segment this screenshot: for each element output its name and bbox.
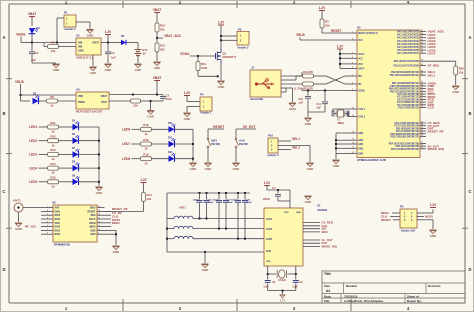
svg-text:Q1: Q1 xyxy=(223,52,227,56)
ground for C1 xyxy=(52,64,60,72)
power port 1.2V at U2 out xyxy=(105,30,112,43)
svg-text:42: 42 xyxy=(421,73,423,76)
wire P4 pin2 to gnd xyxy=(187,107,200,113)
svg-text:12: 12 xyxy=(98,221,100,223)
svg-text:PC6 (TOSC1/PCINT22): PC6 (TOSC1/PCINT22) xyxy=(394,123,419,125)
svg-text:GND: GND xyxy=(90,71,98,75)
power port VBAT xyxy=(28,12,36,26)
svg-text:PA1 (ADC1/PCINT1): PA1 (ADC1/PCINT1) xyxy=(397,34,419,37)
svg-text:VOUT: VOUT xyxy=(92,42,99,45)
svg-text:15: 15 xyxy=(352,147,354,149)
diode D4 xyxy=(108,34,138,45)
svg-text:D10: D10 xyxy=(168,122,173,125)
svg-text:C4: C4 xyxy=(272,186,276,190)
svg-text:Drawn By:: Drawn By: xyxy=(407,299,422,303)
ground for MCU xyxy=(332,160,340,168)
svg-text:1k: 1k xyxy=(51,130,55,134)
svg-text:RESET: RESET xyxy=(381,218,391,222)
svg-text:NSS: NSS xyxy=(91,214,96,217)
wire P1 pin1 xyxy=(57,18,64,43)
svg-text:R2: R2 xyxy=(51,40,55,44)
net labels AS3933 spi xyxy=(303,221,338,249)
svg-text:33: 33 xyxy=(421,36,423,38)
svg-text:8: 8 xyxy=(352,83,353,85)
svg-text:SF_IRQ: SF_IRQ xyxy=(428,64,440,68)
svg-text:P3: P3 xyxy=(400,205,404,209)
svg-text:100pF: 100pF xyxy=(193,199,200,201)
svg-text:22k: 22k xyxy=(459,71,464,75)
svg-text:DIO4: DIO4 xyxy=(55,218,61,221)
svg-text:U1: U1 xyxy=(317,203,321,207)
svg-text:VIN: VIN xyxy=(78,46,82,49)
svg-text:GND: GND xyxy=(296,212,301,214)
svg-text:12pF: 12pF xyxy=(263,286,269,289)
ground for SW1 xyxy=(204,163,212,171)
node VDDA junction xyxy=(197,55,199,57)
svg-text:10k: 10k xyxy=(325,24,330,28)
net labels RF module xyxy=(112,207,128,225)
svg-text:R6: R6 xyxy=(50,95,54,99)
svg-text:1k: 1k xyxy=(51,143,55,147)
svg-text:7: 7 xyxy=(352,75,353,77)
node R7 junction xyxy=(150,100,152,110)
svg-text:SEL2: SEL2 xyxy=(428,73,436,77)
svg-text:GND: GND xyxy=(105,68,113,72)
svg-text:DIO3: DIO3 xyxy=(55,214,61,217)
svg-text:GND: GND xyxy=(358,154,363,156)
svg-text:Y1: Y1 xyxy=(337,118,341,122)
svg-text:R21: R21 xyxy=(50,121,56,125)
svg-text:36: 36 xyxy=(421,101,423,103)
wire usb d+ to R5 xyxy=(281,83,303,85)
svg-text:RF_SIG: RF_SIG xyxy=(25,225,37,229)
ground for ANT1 xyxy=(15,212,23,231)
svg-text:4: 4 xyxy=(352,56,353,59)
svg-text:7/02/2019: 7/02/2019 xyxy=(344,294,358,298)
ground for P1 xyxy=(86,30,94,38)
net label ANT1 lf xyxy=(179,206,186,210)
svg-text:jumper 3: jumper 3 xyxy=(267,153,279,157)
power port 1.2V for R14 xyxy=(140,178,147,193)
svg-text:MISO: MISO xyxy=(112,221,120,225)
net label RESET mcu xyxy=(331,29,342,33)
svg-text:A: A xyxy=(2,35,5,40)
svg-text:33: 33 xyxy=(421,93,423,95)
svg-text:ANT: ANT xyxy=(55,207,60,210)
svg-text:VDD: VDD xyxy=(284,212,289,214)
svg-text:37: 37 xyxy=(421,49,423,51)
ground for charger xyxy=(147,111,155,119)
node charger junction xyxy=(20,94,77,96)
svg-text:VDDA: VDDA xyxy=(180,52,190,56)
wire VBUS rail xyxy=(32,42,76,44)
charger U4 MCP73832T xyxy=(76,88,109,114)
wire LC top rail xyxy=(167,193,250,252)
svg-text:Date:: Date: xyxy=(324,294,332,298)
resistor R7 xyxy=(109,99,151,108)
svg-text:VBAT: VBAT xyxy=(153,76,161,80)
wire SEL2 xyxy=(278,146,300,150)
ground for P4 xyxy=(183,113,191,121)
LED D2 xyxy=(21,92,47,105)
ground for C2 xyxy=(104,64,112,72)
power port 1.2V for R3 xyxy=(319,6,326,19)
resistor R14 xyxy=(105,193,153,212)
svg-text:VBUS: VBUS xyxy=(15,80,24,84)
node rail-P1 junction xyxy=(56,42,58,44)
switch SW1 reset xyxy=(207,138,220,162)
svg-text:DIO1: DIO1 xyxy=(55,229,61,232)
svg-text:39: 39 xyxy=(421,122,423,124)
svg-text:PB6 (OC3A/MISO/PCINT14): PB6 (OC3A/MISO/PCINT14) xyxy=(389,88,419,91)
wire usb gnd xyxy=(281,88,292,102)
svg-text:R25: R25 xyxy=(50,176,56,180)
svg-text:GND: GND xyxy=(90,233,96,236)
svg-text:GND: GND xyxy=(333,164,341,168)
svg-text:16: 16 xyxy=(352,152,354,154)
regulator U2 AMS1117-3.3 xyxy=(76,34,101,60)
svg-text:100pF: 100pF xyxy=(227,202,234,204)
svg-text:13: 13 xyxy=(98,218,100,220)
svg-text:BT1: BT1 xyxy=(143,48,149,52)
net label VBAT_ADC xyxy=(157,34,182,38)
net label VBUS charger xyxy=(15,80,24,95)
net labels P3 left xyxy=(381,211,391,222)
svg-text:Sheet of: Sheet of xyxy=(407,294,419,298)
svg-text:VCC: VCC xyxy=(358,40,363,42)
ground for BT1 xyxy=(134,64,142,72)
RF module U6 RFM69HCW xyxy=(41,201,105,247)
svg-text:GND: GND xyxy=(147,115,155,119)
microcontroller U5 ATMEGA1284P xyxy=(351,26,445,162)
LED row LED2 with resistor R22 and LED D6 xyxy=(29,133,99,147)
svg-text:41: 41 xyxy=(421,126,423,129)
node VBUS junction xyxy=(31,42,33,44)
svg-text:6: 6 xyxy=(47,225,48,227)
resistor R3 xyxy=(320,19,351,33)
wire LED column 1 common xyxy=(98,127,100,186)
resistor R4 xyxy=(303,70,327,78)
svg-text:32: 32 xyxy=(421,33,423,35)
svg-text:1uF: 1uF xyxy=(111,56,116,60)
svg-text:STAT: STAT xyxy=(101,101,107,104)
svg-text:100pF: 100pF xyxy=(246,202,253,204)
capacitor C8 xyxy=(263,274,276,291)
svg-text:WAKE_IRQ: WAKE_IRQ xyxy=(428,147,445,151)
svg-text:1uF: 1uF xyxy=(316,106,321,110)
svg-text:MCP73832T-2ACI/OT: MCP73832T-2ACI/OT xyxy=(76,110,103,114)
wire Q1 source down xyxy=(220,64,222,80)
svg-text:P4: P4 xyxy=(200,93,204,97)
wire RF gnd rows xyxy=(105,230,118,245)
svg-text:J1: J1 xyxy=(251,65,255,69)
svg-text:GND: GND xyxy=(113,250,121,254)
svg-text:PB2 (INT2/AIN0/PCINT10): PB2 (INT2/AIN0/PCINT10) xyxy=(391,71,419,74)
svg-text:RESET: RESET xyxy=(88,210,97,213)
svg-text:GND: GND xyxy=(202,268,210,272)
svg-text:32: 32 xyxy=(421,145,423,147)
wire P2 pin2 xyxy=(220,39,237,41)
wire ugnd row xyxy=(281,88,351,91)
svg-text:MISO: MISO xyxy=(89,226,95,229)
resistor R10 xyxy=(155,23,166,38)
svg-text:D4: D4 xyxy=(121,34,125,38)
svg-text:R4 22R: R4 22R xyxy=(303,70,312,74)
LED row LED4 with resistor R24 and LED D8 xyxy=(29,161,99,175)
svg-text:PA2 (ADC2/PCINT2): PA2 (ADC2/PCINT2) xyxy=(397,37,419,40)
svg-text:100pF: 100pF xyxy=(208,202,215,204)
svg-text:P1: P1 xyxy=(64,11,68,15)
svg-text:35: 35 xyxy=(421,42,423,44)
svg-text:15: 15 xyxy=(98,210,100,212)
svg-text:7: 7 xyxy=(47,229,48,231)
svg-text:microUSB: microUSB xyxy=(250,97,263,101)
svg-text:PC1 (SDA/PCINT17): PC1 (SDA/PCINT17) xyxy=(397,96,419,99)
wire P3 mosi xyxy=(417,215,433,219)
header P4 xyxy=(200,93,212,115)
svg-text:PD6 (OC2B/ICP/PCINT30): PD6 (OC2B/ICP/PCINT30) xyxy=(391,149,419,151)
ground LED column 2 xyxy=(189,163,197,171)
svg-text:WAKE_IRQ: WAKE_IRQ xyxy=(322,244,338,248)
wire xtal bottom rail xyxy=(268,290,296,295)
svg-text:VCC: VCC xyxy=(358,58,363,60)
svg-text:PB1 (CLKO/T1/PCINT9): PB1 (CLKO/T1/PCINT9) xyxy=(393,66,419,68)
resistor R20 on SF_IRQ xyxy=(426,61,464,85)
svg-text:1.2V: 1.2V xyxy=(140,178,147,182)
svg-text:GND: GND xyxy=(305,200,313,204)
svg-text:GND: GND xyxy=(154,66,162,70)
resistor R5 xyxy=(303,82,327,91)
svg-text:2: 2 xyxy=(47,210,48,212)
svg-text:Title: Title xyxy=(324,272,331,276)
svg-text:11: 11 xyxy=(98,225,100,227)
svg-text:1k: 1k xyxy=(50,104,54,108)
svg-text:LED8: LED8 xyxy=(122,157,130,161)
svg-text:5V_EXT: 5V_EXT xyxy=(243,125,257,129)
LF receiver U1 AS3933 xyxy=(264,203,328,266)
svg-text:D11: D11 xyxy=(168,137,173,140)
svg-text:8: 8 xyxy=(47,233,48,235)
power port VBAT divider xyxy=(153,8,161,23)
svg-text:PC3 (TMS/PCINT19): PC3 (TMS/PCINT19) xyxy=(397,102,419,104)
svg-text:10: 10 xyxy=(352,108,354,110)
svg-text:GND: GND xyxy=(90,229,96,232)
svg-text:AUX: AUX xyxy=(239,139,245,143)
svg-text:GND: GND xyxy=(289,107,297,111)
LED row LED1 with resistor R21 and LED D5 xyxy=(29,120,99,134)
svg-text:43: 43 xyxy=(421,81,423,84)
svg-text:3: 3 xyxy=(352,52,353,54)
ground for P10 xyxy=(306,163,314,171)
svg-text:34: 34 xyxy=(421,94,423,97)
svg-text:16: 16 xyxy=(98,206,100,208)
power port 1.2V avcc xyxy=(337,45,344,69)
wire U4 output xyxy=(109,94,163,96)
net label VBUS mcu xyxy=(296,33,351,40)
svg-text:1k: 1k xyxy=(51,171,55,175)
svg-text:Size: Size xyxy=(324,284,330,288)
svg-text:XTAL2: XTAL2 xyxy=(358,116,366,119)
svg-text:36: 36 xyxy=(421,46,423,48)
svg-text:VCC: VCC xyxy=(358,64,363,66)
header P10 jumper xyxy=(267,133,279,156)
svg-text:AS3933: AS3933 xyxy=(317,208,328,212)
wire P3 gnd xyxy=(417,220,433,229)
svg-text:VBAT: VBAT xyxy=(153,8,161,12)
wires MCU ground bus xyxy=(335,133,351,159)
capacitor C3 xyxy=(151,94,173,102)
switch SW2 aux xyxy=(235,138,248,162)
capacitor C2 xyxy=(105,43,116,64)
svg-text:33: 33 xyxy=(421,147,423,149)
svg-text:GND: GND xyxy=(358,133,363,135)
svg-text:LF1P: LF1P xyxy=(266,218,272,221)
svg-text:XTAL1: XTAL1 xyxy=(358,108,366,111)
svg-text:PA6 (ADC6/PCINT6): PA6 (ADC6/PCINT6) xyxy=(397,49,419,52)
header P1 xyxy=(64,11,76,31)
svg-text:C: C xyxy=(2,189,5,194)
svg-text:X2 32k: X2 32k xyxy=(278,279,286,282)
wire U2 out xyxy=(101,42,108,44)
svg-text:1k: 1k xyxy=(144,161,148,165)
svg-text:12: 12 xyxy=(352,132,354,134)
svg-text:P10: P10 xyxy=(268,133,273,137)
svg-text:PC2 (TCK/PCINT18): PC2 (TCK/PCINT18) xyxy=(397,99,419,101)
svg-text:UGND: UGND xyxy=(358,90,365,92)
svg-text:38: 38 xyxy=(421,106,423,108)
svg-text:MOSI: MOSI xyxy=(89,222,95,225)
svg-text:LED7: LED7 xyxy=(428,51,436,55)
svg-text:LED1: LED1 xyxy=(29,125,37,129)
svg-text:D2: D2 xyxy=(33,92,37,96)
svg-text:2: 2 xyxy=(352,39,353,41)
svg-text:R19: R19 xyxy=(143,153,149,157)
wire P10 mid to gnd xyxy=(278,146,310,163)
svg-text:VDD: VDD xyxy=(55,222,60,225)
svg-text:11: 11 xyxy=(352,115,354,117)
svg-text:PD4 (XCK1/OC1B/PCINT28): PD4 (XCK1/OC1B/PCINT28) xyxy=(389,142,419,145)
svg-text:GND: GND xyxy=(307,167,315,171)
net label 5V_EXT switch xyxy=(236,125,257,138)
svg-text:31: 31 xyxy=(421,142,423,144)
resistor R2 xyxy=(44,40,76,53)
net label VBUS xyxy=(16,33,32,43)
ground for J1 xyxy=(289,103,297,111)
antenna connector ANT1 xyxy=(13,199,23,213)
svg-text:MOSI: MOSI xyxy=(425,215,433,219)
svg-text:1.2V: 1.2V xyxy=(105,30,112,34)
wires AVCC bus xyxy=(339,53,351,69)
svg-text:PB0 (XCK0/T0/PCINT8): PB0 (XCK0/T0/PCINT8) xyxy=(394,61,419,63)
svg-text:1k: 1k xyxy=(144,132,148,136)
net label 3.3V usb xyxy=(294,87,302,91)
resistor R12 xyxy=(155,38,166,61)
power port VBAT charger xyxy=(153,76,161,95)
svg-text:100pF: 100pF xyxy=(212,199,219,201)
net label VDDA xyxy=(180,52,213,56)
svg-text:LF3P: LF3P xyxy=(266,238,272,241)
svg-text:SW1: SW1 xyxy=(211,139,217,143)
svg-text:12pF: 12pF xyxy=(292,286,298,289)
svg-text:PD0 (RXD0/PCINT24): PD0 (RXD0/PCINT24) xyxy=(396,127,419,130)
svg-text:AMS1117-3.3: AMS1117-3.3 xyxy=(76,56,94,60)
svg-text:20k: 20k xyxy=(160,48,165,52)
svg-text:RESET: RESET xyxy=(213,125,225,129)
svg-text:VBAT_ADC: VBAT_ADC xyxy=(164,34,182,38)
svg-text:39: 39 xyxy=(421,60,423,62)
svg-text:20k: 20k xyxy=(160,28,165,32)
svg-text:D12: D12 xyxy=(168,151,173,154)
svg-text:GND: GND xyxy=(305,122,313,126)
svg-text:14: 14 xyxy=(98,213,100,216)
svg-text:A:\OneDrive\..\Tixi-Schpltes: A:\OneDrive\..\Tixi-Schpltes xyxy=(344,299,384,303)
LED row LED6 with resistor R16 xyxy=(122,122,193,136)
wire LED column 2 common xyxy=(192,129,194,162)
svg-text:34: 34 xyxy=(421,38,423,41)
capacitor C4 xyxy=(263,186,291,201)
ground for U2 xyxy=(89,55,97,75)
svg-text:PD5 (OC1A/PCINT29): PD5 (OC1A/PCINT29) xyxy=(396,145,420,148)
svg-text:GND: GND xyxy=(358,140,363,142)
node U2 out junction xyxy=(107,42,109,44)
LED row LED8 with resistor R19 xyxy=(122,151,193,165)
power port 1.2V for U1 xyxy=(264,181,290,208)
svg-text:B: B xyxy=(2,111,5,116)
power port 1.2V for Q1 xyxy=(218,21,225,49)
capacitor C9 xyxy=(292,274,303,291)
svg-text:8MHz: 8MHz xyxy=(338,121,345,125)
svg-text:R24: R24 xyxy=(50,162,56,166)
wire antenna to U6 xyxy=(23,207,41,209)
svg-text:AREF: AREF xyxy=(358,67,365,70)
wire usb vbus pin xyxy=(281,72,302,76)
svg-text:GND: GND xyxy=(205,167,213,171)
svg-text:1k: 1k xyxy=(51,157,55,161)
LED row LED3 with resistor R23 and LED D7 xyxy=(29,147,99,161)
svg-text:30: 30 xyxy=(421,84,423,86)
svg-text:C: C xyxy=(468,189,471,194)
svg-text:RFM69HCW: RFM69HCW xyxy=(54,242,70,246)
svg-text:DIO2: DIO2 xyxy=(55,233,61,236)
svg-text:VBAT: VBAT xyxy=(28,12,36,16)
svg-text:LF2P: LF2P xyxy=(266,228,272,231)
svg-text:PA5 (ADC5/PCINT5): PA5 (ADC5/PCINT5) xyxy=(397,46,419,49)
svg-text:RESET_RF: RESET_RF xyxy=(428,129,444,133)
svg-text:1.2V: 1.2V xyxy=(430,203,437,207)
svg-text:PD1 (TXD0/PCINT25): PD1 (TXD0/PCINT25) xyxy=(396,131,419,133)
svg-text:VBUS: VBUS xyxy=(16,33,26,37)
ground for C4 xyxy=(304,196,312,204)
svg-text:LED3: LED3 xyxy=(29,153,37,157)
svg-text:1.2V: 1.2V xyxy=(184,91,191,95)
svg-text:PD3 (TXD1/INT1/PCINT27): PD3 (TXD1/INT1/PCINT27) xyxy=(390,137,419,139)
svg-text:ATMEGA1284P-AUR: ATMEGA1284P-AUR xyxy=(357,158,387,162)
ground for divider xyxy=(153,62,161,70)
svg-text:GND: GND xyxy=(358,148,363,150)
svg-text:R23: R23 xyxy=(50,148,56,152)
svg-text:10: 10 xyxy=(98,229,100,231)
wire crossover xyxy=(326,76,351,84)
svg-text:5: 5 xyxy=(47,221,48,223)
svg-text:U6: U6 xyxy=(52,201,56,205)
svg-text:100k: 100k xyxy=(201,66,208,70)
svg-text:RESET (PCINT14): RESET (PCINT14) xyxy=(358,32,378,35)
ground for crystal xyxy=(280,295,286,303)
svg-text:PROG: PROG xyxy=(78,101,85,104)
svg-text:38: 38 xyxy=(421,52,423,54)
svg-text:1.7V: 1.7V xyxy=(280,300,285,303)
svg-text:Header 2: Header 2 xyxy=(65,27,77,31)
